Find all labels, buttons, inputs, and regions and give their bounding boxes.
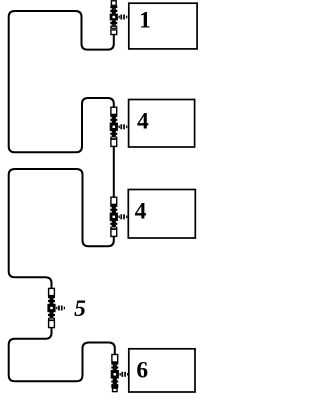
svg-text:6: 6 [136,357,148,383]
svg-text:4: 4 [137,108,149,134]
svg-text:4: 4 [135,198,147,224]
svg-text:5: 5 [74,296,86,322]
svg-text:1: 1 [139,8,151,34]
